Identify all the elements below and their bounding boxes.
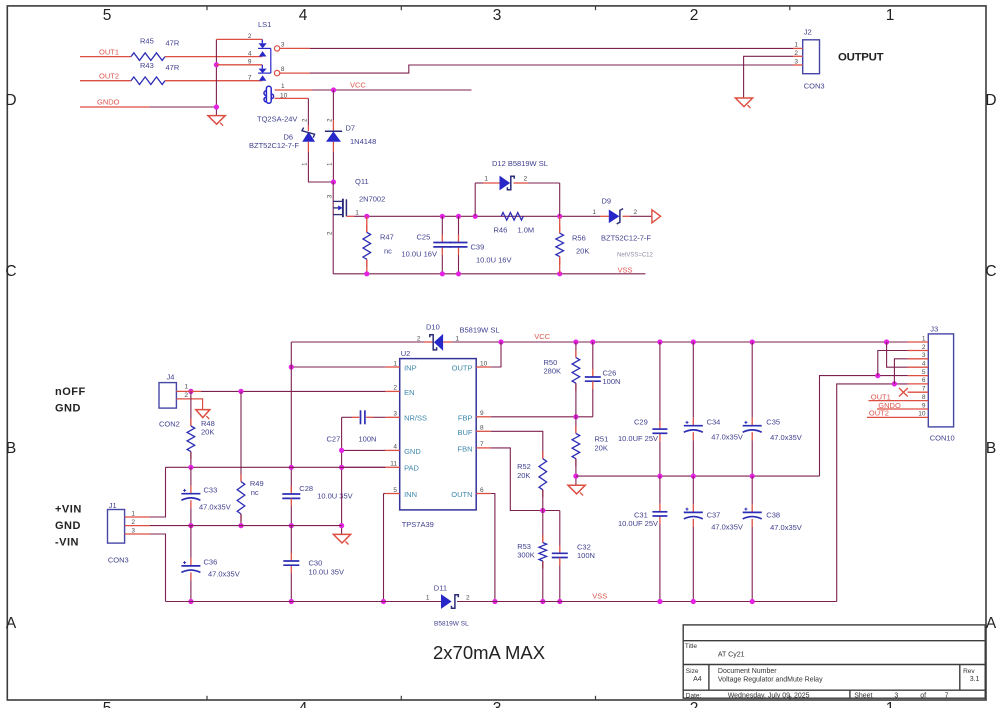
svg-text:D11: D11 <box>434 584 447 593</box>
svg-text:C30: C30 <box>309 559 323 568</box>
svg-text:Size: Size <box>686 668 699 675</box>
svg-text:47.0x35V: 47.0x35V <box>199 503 231 512</box>
junction VCC/D7 <box>331 87 336 92</box>
svg-text:R51: R51 <box>595 435 609 444</box>
junctions VSS rail right <box>657 599 662 604</box>
svg-text:BUF: BUF <box>458 428 473 437</box>
svg-text:1: 1 <box>184 384 188 391</box>
J1 pin2 wire GND rail <box>125 525 150 527</box>
svg-text:R45: R45 <box>140 37 154 46</box>
svg-text:A4: A4 <box>693 676 702 683</box>
svg-text:GND: GND <box>404 447 421 456</box>
svg-text:2: 2 <box>131 519 135 526</box>
J4 pin1 stub <box>176 390 201 392</box>
wire PAD pin <box>342 466 386 468</box>
svg-text:Title: Title <box>685 643 697 650</box>
svg-text:1: 1 <box>484 176 488 183</box>
svg-text:2: 2 <box>524 176 528 183</box>
svg-text:OUTN: OUTN <box>451 490 472 499</box>
svg-text:7: 7 <box>922 386 926 393</box>
relay link bar <box>270 48 272 73</box>
wire pin10 down to D6 <box>307 98 309 125</box>
svg-text:EN: EN <box>404 388 414 397</box>
svg-text:1: 1 <box>886 700 895 708</box>
resistor R45 <box>131 53 165 61</box>
svg-text:D10: D10 <box>426 323 440 332</box>
svg-text:FBP: FBP <box>458 414 473 423</box>
svg-text:C38: C38 <box>766 511 780 520</box>
svg-text:J4: J4 <box>167 372 175 381</box>
svg-text:BZT52C12-7-F: BZT52C12-7-F <box>601 234 651 243</box>
svg-text:3: 3 <box>894 693 898 700</box>
svg-text:1: 1 <box>592 209 596 216</box>
J1 pin3 wire to VSS rail <box>125 533 150 535</box>
wire VSS bottom rail <box>166 601 442 603</box>
svg-text:OUTP: OUTP <box>452 363 473 372</box>
wire OUT1 left <box>80 56 131 58</box>
svg-text:CON3: CON3 <box>108 556 129 565</box>
svg-text:10: 10 <box>480 360 488 367</box>
svg-text:PAD: PAD <box>404 464 419 473</box>
svg-text:47.0x35V: 47.0x35V <box>711 433 743 442</box>
svg-text:BZT52C12-7-F: BZT52C12-7-F <box>249 141 299 150</box>
relay contact pin3 circle <box>274 46 279 51</box>
svg-text:20K: 20K <box>201 427 214 436</box>
svg-text:5: 5 <box>103 700 112 708</box>
wire OUTN riser <box>491 494 495 602</box>
svg-text:5: 5 <box>922 369 926 376</box>
svg-text:OUT1: OUT1 <box>99 48 119 57</box>
svg-text:10.0UF 25V: 10.0UF 25V <box>618 519 658 528</box>
svg-text:R43: R43 <box>140 61 154 70</box>
svg-text:47R: 47R <box>166 63 180 72</box>
svg-text:2: 2 <box>248 33 252 40</box>
svg-text:9: 9 <box>480 410 484 417</box>
svg-text:AT Cy21: AT Cy21 <box>718 652 745 659</box>
svg-text:CON10: CON10 <box>930 434 955 443</box>
svg-text:J1: J1 <box>109 501 117 510</box>
svg-text:7: 7 <box>480 441 484 448</box>
svg-text:Q11: Q11 <box>355 177 369 186</box>
svg-text:1: 1 <box>922 335 926 342</box>
svg-text:3: 3 <box>327 194 334 198</box>
wire J3 pin4 branch (VCC) <box>887 342 908 367</box>
svg-text:3: 3 <box>393 411 397 418</box>
svg-text:10.0U 35V: 10.0U 35V <box>317 492 352 501</box>
svg-text:Voltage Regulator andMute Rela: Voltage Regulator andMute Relay <box>718 677 823 684</box>
svg-text:R52: R52 <box>517 462 531 471</box>
svg-text:A: A <box>986 615 997 632</box>
relay contact arrow pin4 <box>259 51 267 56</box>
ground R51 <box>568 485 585 494</box>
wire FBP <box>491 416 593 418</box>
svg-text:10.0U 16V: 10.0U 16V <box>476 256 511 265</box>
svg-text:J2: J2 <box>804 28 812 37</box>
svg-text:C25: C25 <box>417 233 431 242</box>
svg-text:4: 4 <box>299 7 308 24</box>
wire INN <box>384 493 386 495</box>
svg-text:2N7002: 2N7002 <box>359 195 385 204</box>
svg-text:+VIN: +VIN <box>55 503 82 515</box>
svg-text:B: B <box>6 440 16 457</box>
wire relay pin8 to J2 pin3 <box>280 72 310 74</box>
svg-text:B5819W SL: B5819W SL <box>434 620 469 627</box>
svg-text:D: D <box>5 92 16 109</box>
svg-text:OUTPUT: OUTPUT <box>838 51 884 63</box>
svg-text:2: 2 <box>794 50 798 57</box>
svg-text:47.0x35V: 47.0x35V <box>770 523 802 532</box>
svg-text:10.0U 35V: 10.0U 35V <box>309 568 344 577</box>
svg-text:3: 3 <box>131 527 135 534</box>
svg-text:100N: 100N <box>603 377 621 386</box>
svg-text:1: 1 <box>393 360 397 367</box>
relay coil symbol <box>264 86 274 103</box>
svg-text:VSS: VSS <box>592 592 607 601</box>
svg-text:20K: 20K <box>517 471 530 480</box>
J3 pin7 no-connect X <box>899 388 908 397</box>
svg-text:VCC: VCC <box>534 332 550 341</box>
svg-text:-VIN: -VIN <box>55 536 79 548</box>
svg-text:C27: C27 <box>327 435 341 444</box>
svg-text:2: 2 <box>393 385 397 392</box>
wire GND pin <box>342 449 386 451</box>
J4 pin2 to ground <box>176 399 202 410</box>
relay coil pin 10 wire <box>275 97 309 99</box>
svg-text:8: 8 <box>922 394 926 401</box>
wire J3 pin2 branch <box>878 351 908 376</box>
svg-text:C34: C34 <box>707 418 721 427</box>
J3 pin stubs <box>908 341 929 343</box>
svg-text:100N: 100N <box>359 435 377 444</box>
svg-text:2: 2 <box>417 336 421 343</box>
wire VSS riser to J3 <box>837 384 908 602</box>
svg-text:3: 3 <box>922 352 926 359</box>
wire EN (nOFF net) <box>201 390 385 392</box>
svg-text:9: 9 <box>922 402 926 409</box>
J1 pin1 wire to +VIN rail <box>125 516 150 518</box>
svg-text:300K: 300K <box>517 550 535 559</box>
svg-text:R56: R56 <box>572 234 586 243</box>
svg-text:10.0U 16V: 10.0U 16V <box>402 250 437 259</box>
svg-text:3: 3 <box>493 7 502 24</box>
junction relay vertical / pin9 <box>214 62 219 67</box>
svg-text:D12 B5819W SL: D12 B5819W SL <box>492 159 548 168</box>
svg-text:U2: U2 <box>401 349 411 358</box>
svg-text:1: 1 <box>281 83 285 90</box>
svg-text:9: 9 <box>248 59 252 66</box>
resistor R43 <box>131 77 165 85</box>
svg-text:nc: nc <box>384 247 392 256</box>
svg-text:10: 10 <box>918 411 926 418</box>
svg-text:7: 7 <box>248 75 252 82</box>
wire relay pin 9 <box>216 64 262 66</box>
svg-text:4: 4 <box>299 700 308 708</box>
relay coil pin 1 wire / VCC <box>275 89 313 91</box>
U2 pin stubs right <box>476 366 491 368</box>
svg-text:3.1: 3.1 <box>970 676 980 683</box>
svg-text:nc: nc <box>251 488 259 497</box>
svg-text:INP: INP <box>404 363 417 372</box>
wire OUT2 left <box>80 80 131 82</box>
svg-text:OUT2: OUT2 <box>99 72 119 81</box>
svg-text:C28: C28 <box>299 484 313 493</box>
ground GNDO <box>208 116 225 125</box>
junction D6/D7 <box>331 179 336 184</box>
svg-text:20K: 20K <box>576 247 589 256</box>
svg-text:2: 2 <box>922 344 926 351</box>
svg-text:3: 3 <box>794 58 798 65</box>
svg-text:2: 2 <box>690 700 699 708</box>
diode D12 <box>500 176 511 191</box>
wire analog ground mid rail <box>576 475 820 477</box>
svg-text:100N: 100N <box>577 551 595 560</box>
wire GNDO <box>80 106 150 108</box>
wire FBN riser <box>491 448 560 511</box>
svg-text:1.0M: 1.0M <box>518 226 535 235</box>
svg-text:INN: INN <box>404 490 417 499</box>
svg-text:nOFF: nOFF <box>55 386 86 398</box>
off-page connector arrow <box>652 210 661 223</box>
svg-text:47.0x35V: 47.0x35V <box>770 433 802 442</box>
svg-text:1: 1 <box>355 210 359 217</box>
svg-text:Document Number: Document Number <box>718 668 777 675</box>
svg-text:2: 2 <box>690 7 699 24</box>
svg-text:7: 7 <box>945 693 949 700</box>
ground J2 <box>735 98 752 107</box>
svg-text:VSS: VSS <box>618 265 633 274</box>
wire C27/GND/PAD vertical to ground <box>341 417 343 534</box>
wire BUF riser <box>491 431 543 458</box>
svg-text:10.0UF 25V: 10.0UF 25V <box>618 434 658 443</box>
wire OUT2 to relay pin 7 <box>165 80 262 82</box>
svg-text:CON3: CON3 <box>804 82 825 91</box>
svg-text:GND: GND <box>55 520 81 532</box>
svg-text:2: 2 <box>466 595 470 602</box>
svg-text:6: 6 <box>480 487 484 494</box>
svg-text:Sheet: Sheet <box>854 693 872 700</box>
svg-text:VCC: VCC <box>350 81 366 90</box>
svg-text:1: 1 <box>426 595 430 602</box>
svg-text:C36: C36 <box>204 558 218 567</box>
svg-text:C33: C33 <box>204 486 218 495</box>
svg-text:GNDO: GNDO <box>97 98 120 107</box>
svg-text:2x70mA MAX: 2x70mA MAX <box>433 642 545 663</box>
svg-text:1N4148: 1N4148 <box>350 137 376 146</box>
svg-text:2: 2 <box>184 392 188 399</box>
wire J2 pin2 to ground <box>744 56 793 98</box>
svg-text:8: 8 <box>480 425 484 432</box>
svg-text:C35: C35 <box>766 418 780 427</box>
wire INP <box>291 366 385 368</box>
svg-text:C: C <box>985 263 996 280</box>
svg-text:4: 4 <box>922 361 926 368</box>
svg-text:D7: D7 <box>346 124 356 133</box>
svg-text:R47: R47 <box>380 233 394 242</box>
svg-text:3: 3 <box>493 700 502 708</box>
svg-text:A: A <box>6 615 17 632</box>
svg-text:GND: GND <box>55 402 81 414</box>
svg-text:C29: C29 <box>634 418 648 427</box>
svg-text:8: 8 <box>281 66 285 73</box>
svg-text:D9: D9 <box>602 197 612 206</box>
ground J4 <box>196 410 210 418</box>
junction GNDO <box>214 104 219 109</box>
wire +VIN rail <box>166 466 386 468</box>
junctions VCC rail <box>498 339 503 344</box>
wire VCC rail <box>452 341 908 343</box>
svg-text:C39: C39 <box>471 243 485 252</box>
svg-text:FBN: FBN <box>458 444 473 453</box>
svg-text:47.0x35V: 47.0x35V <box>208 570 240 579</box>
svg-text:NR/SS: NR/SS <box>404 414 427 423</box>
svg-text:J3: J3 <box>930 325 938 334</box>
svg-text:OUT2: OUT2 <box>869 409 889 418</box>
svg-text:TPS7A39: TPS7A39 <box>402 520 434 529</box>
svg-text:C: C <box>5 263 16 280</box>
svg-text:C37: C37 <box>707 511 721 520</box>
wire VSS top-section rail <box>333 273 645 275</box>
wire relay pin 2 <box>216 38 262 40</box>
svg-text:Date:: Date: <box>686 692 702 699</box>
svg-text:20K: 20K <box>595 444 608 453</box>
wire D6 bottom to junction <box>307 142 309 152</box>
U2 pin stubs left <box>385 366 399 368</box>
svg-text:B5819W SL: B5819W SL <box>460 326 500 335</box>
svg-text:R46: R46 <box>494 226 508 235</box>
svg-text:280K: 280K <box>544 367 562 376</box>
svg-text:CON2: CON2 <box>159 420 180 429</box>
wire OUT1 to relay pin 4 <box>165 56 262 58</box>
svg-text:LS1: LS1 <box>258 20 271 29</box>
relay contact pin8 circle <box>274 70 279 75</box>
svg-text:3: 3 <box>281 42 285 49</box>
wire OUTP riser <box>491 342 501 367</box>
svg-text:47R: 47R <box>166 39 180 48</box>
wire J3 pin3 branch (VSS) <box>892 381 897 386</box>
svg-text:1: 1 <box>794 42 798 49</box>
relay contact arrow pin7 <box>259 75 267 80</box>
svg-text:B: B <box>986 440 996 457</box>
svg-text:4: 4 <box>393 444 397 451</box>
svg-text:TQ2SA-24V: TQ2SA-24V <box>257 115 297 124</box>
svg-text:1: 1 <box>131 510 135 517</box>
svg-text:D: D <box>985 92 996 109</box>
svg-text:R49: R49 <box>250 479 264 488</box>
svg-text:4: 4 <box>248 51 252 58</box>
wire INP riser / C28 column <box>290 342 292 491</box>
svg-text:NetVSS=C12: NetVSS=C12 <box>617 253 654 259</box>
svg-text:1: 1 <box>886 7 895 24</box>
wire relay left vertical <box>215 39 217 115</box>
svg-text:2: 2 <box>634 209 638 216</box>
svg-text:Rev: Rev <box>963 668 975 675</box>
wire Q11 gate row (mid net) <box>346 215 354 217</box>
wire relay pin3 to J2 pin1 <box>280 47 310 49</box>
ground main GND rail <box>333 534 350 543</box>
svg-text:47.0x35V: 47.0x35V <box>711 523 743 532</box>
title block <box>683 625 985 698</box>
svg-text:5: 5 <box>393 487 397 494</box>
svg-text:5: 5 <box>103 7 112 24</box>
wire AGND riser to J3 <box>820 376 908 477</box>
relay contact arm 2 (pin9 down-arrow) <box>261 65 263 69</box>
junctions mid net <box>364 214 369 219</box>
svg-text:2: 2 <box>327 231 334 235</box>
svg-text:11: 11 <box>390 461 397 468</box>
svg-text:of: of <box>920 693 926 700</box>
svg-text:6: 6 <box>922 377 926 384</box>
svg-text:10: 10 <box>280 92 288 99</box>
svg-text:Wednesday, July 09, 2025: Wednesday, July 09, 2025 <box>728 693 810 700</box>
